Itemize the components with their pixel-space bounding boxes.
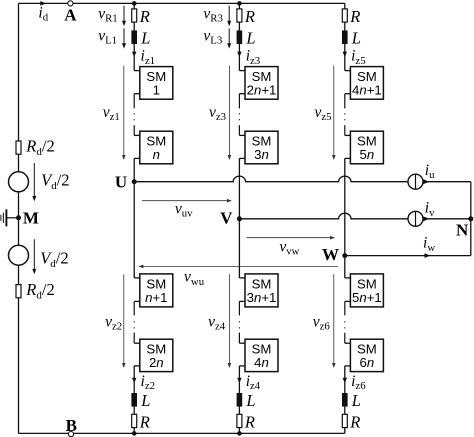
- svg-text:5n+1: 5n+1: [352, 290, 382, 305]
- wire dash-dot upper arm leg 2: [238, 94, 240, 109]
- voltage arrow v_wu: [141, 265, 338, 267]
- svg-text:2n: 2n: [149, 355, 164, 370]
- SM module n (upper arm leg 1): [134, 134, 140, 136]
- wire dash-dot upper arm leg 1: [133, 94, 135, 109]
- svg-text:5n: 5n: [360, 147, 375, 162]
- svg-text:3n: 3n: [254, 147, 269, 162]
- source Vd/2 lower: [9, 245, 29, 265]
- resistor R upper arm leg 3: [344, 3, 346, 8]
- wire node W down leg 3: [344, 256, 346, 278]
- wire node V down leg 2: [238, 219, 240, 278]
- node leg 1 bottom junction: [132, 431, 137, 436]
- wire U phase line with hops: [134, 176, 408, 182]
- inductor L lower arm leg 2: [237, 393, 243, 407]
- svg-text:U: U: [115, 173, 127, 192]
- current arrow i_w: [425, 253, 431, 258]
- svg-text:R: R: [349, 412, 360, 431]
- svg-text:B: B: [66, 416, 77, 435]
- current source i_v: [408, 211, 423, 226]
- resistor R upper arm leg 1: [133, 3, 135, 8]
- SM module 4n (lower arm leg 2): [239, 342, 245, 344]
- voltage arrow v_L3: [228, 28, 230, 46]
- source Vd/2 upper: [9, 172, 29, 192]
- SM module 2n (lower arm leg 1): [134, 342, 140, 344]
- current source i_u: [408, 174, 423, 189]
- wire dash-dot lower arm leg 3: [344, 301, 346, 315]
- svg-text:R: R: [244, 412, 255, 431]
- wire bottom rail B bus: [19, 432, 345, 434]
- node A: [68, 1, 73, 6]
- inductor L lower arm leg 3: [342, 393, 348, 407]
- wire V phase line with hop: [239, 213, 408, 219]
- wire dash-dot lower arm leg 1: [133, 301, 135, 315]
- svg-text:N: N: [456, 221, 469, 240]
- node M: [16, 215, 21, 220]
- svg-text:n: n: [153, 147, 160, 162]
- svg-text:W: W: [322, 245, 339, 264]
- wire top rail A bus: [19, 2, 345, 4]
- resistor R lower arm leg 3: [342, 414, 347, 427]
- wire dash-dot lower arm leg 2: [238, 301, 240, 315]
- SM module 3n+1 (lower arm leg 2): [239, 277, 245, 279]
- current arrow i_z1 upper arm leg 1: [133, 44, 135, 71]
- inductor L upper arm leg 2: [237, 30, 243, 44]
- current arrow i_z6 lower arm leg 3: [344, 366, 346, 393]
- wire dash-dot upper arm leg 3: [344, 94, 346, 109]
- resistor R upper arm leg 2: [238, 3, 240, 8]
- arm voltage arrow v_z3: [228, 66, 230, 158]
- SM module 4n+1 (upper arm leg 3): [345, 70, 351, 72]
- wire W phase line: [345, 255, 471, 257]
- resistor R lower arm leg 2: [237, 414, 242, 427]
- SM module 5n (upper arm leg 3): [345, 134, 351, 136]
- arm voltage arrow v_z6: [333, 274, 335, 365]
- svg-text:R: R: [349, 7, 360, 26]
- voltage arrow v_R1: [123, 6, 125, 24]
- inductor L upper arm leg 1: [131, 30, 137, 44]
- SM module 3n (upper arm leg 2): [239, 134, 245, 136]
- svg-text:2n+1: 2n+1: [247, 82, 277, 97]
- node U: [132, 179, 137, 184]
- ground at M: [6, 217, 18, 219]
- voltage arrow v_uv: [142, 200, 229, 202]
- wire leg 3 to node W: [344, 158, 346, 255]
- svg-text:A: A: [64, 5, 77, 24]
- inductor L lower arm leg 1: [131, 393, 137, 407]
- svg-text:3n+1: 3n+1: [247, 290, 277, 305]
- voltage arrow v_vw: [247, 237, 333, 239]
- node V: [237, 216, 242, 221]
- wire node U down leg 1: [133, 182, 135, 278]
- wire leg 2 to node V: [238, 158, 240, 218]
- wire left DC rail: [18, 3, 20, 433]
- node leg 1 top junction: [132, 1, 137, 6]
- resistor R lower arm leg 1: [132, 414, 137, 427]
- svg-text:4n+1: 4n+1: [352, 82, 382, 97]
- current arrow i_z4 lower arm leg 2: [238, 366, 240, 393]
- svg-text:L: L: [245, 28, 255, 47]
- arm voltage arrow v_z5: [333, 66, 335, 158]
- arm voltage arrow v_z2: [123, 274, 125, 365]
- svg-text:V: V: [220, 209, 233, 228]
- voltage arrow v_R3: [228, 6, 230, 24]
- wire right edge to N: [470, 182, 472, 256]
- wire leg 1 to node U: [133, 158, 135, 181]
- current arrow i_d: [40, 1, 46, 6]
- resistor Rd/2 lower: [16, 285, 21, 298]
- SM module n+1 (lower arm leg 1): [134, 277, 140, 279]
- svg-text:L: L: [351, 28, 361, 47]
- svg-text:R: R: [139, 412, 150, 431]
- arm voltage arrow v_z1: [123, 66, 125, 158]
- node W: [342, 253, 347, 258]
- voltage arrow v_L1: [123, 28, 125, 46]
- svg-text:R: R: [139, 7, 150, 26]
- node leg 2 top junction: [237, 1, 242, 6]
- current arrow i_z5 upper arm leg 3: [344, 44, 346, 71]
- svg-text:R: R: [244, 7, 255, 26]
- svg-text:L: L: [140, 28, 150, 47]
- svg-text:M: M: [23, 208, 39, 227]
- svg-text:4n: 4n: [254, 355, 269, 370]
- node B: [68, 432, 73, 437]
- node N: [468, 216, 473, 221]
- SM module 5n+1 (lower arm leg 3): [345, 277, 351, 279]
- arm voltage arrow v_z4: [228, 274, 230, 365]
- inductor L upper arm leg 3: [342, 30, 348, 44]
- current arrow i_z3 upper arm leg 2: [238, 44, 240, 71]
- resistor Rd/2 upper: [16, 141, 21, 154]
- svg-text:6n: 6n: [360, 355, 375, 370]
- svg-text:L: L: [140, 391, 150, 410]
- node leg 2 bottom junction: [237, 431, 242, 436]
- SM module 1 (upper arm leg 1): [134, 70, 140, 72]
- SM module 2n+1 (upper arm leg 2): [239, 70, 245, 72]
- svg-text:L: L: [245, 391, 255, 410]
- SM module 6n (lower arm leg 3): [345, 342, 351, 344]
- svg-text:1: 1: [153, 82, 160, 97]
- svg-text:L: L: [351, 391, 361, 410]
- svg-text:n+1: n+1: [145, 290, 167, 305]
- current arrow i_z2 lower arm leg 1: [133, 366, 135, 393]
